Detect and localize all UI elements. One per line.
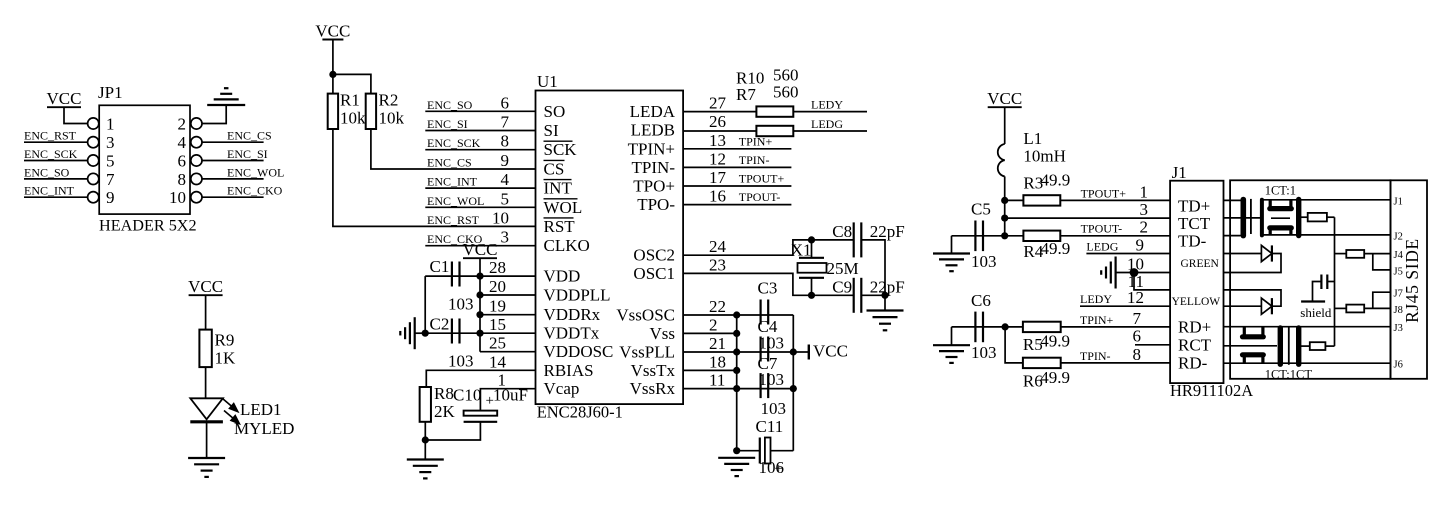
wire VDDPLL pin 20 row	[480, 294, 536, 296]
svg-text:VDDPLL: VDDPLL	[544, 286, 611, 305]
svg-text:ENC_SO: ENC_SO	[427, 98, 473, 112]
svg-text:CLKO: CLKO	[544, 236, 590, 255]
svg-text:5: 5	[501, 189, 510, 208]
svg-text:J1: J1	[1394, 196, 1403, 207]
svg-text:ENC_CS: ENC_CS	[227, 129, 272, 143]
svg-text:TPIN-: TPIN-	[632, 158, 676, 177]
svg-text:J3: J3	[1394, 323, 1403, 334]
wire net ENC_SCK to U1 pin 8	[425, 149, 535, 151]
svg-text:C5: C5	[971, 200, 991, 219]
resistor J4/J5 termination	[1335, 253, 1347, 255]
ground (Vss rail)	[718, 457, 755, 459]
svg-text:9: 9	[1136, 235, 1145, 254]
svg-text:10k: 10k	[379, 109, 405, 128]
svg-text:JP1: JP1	[98, 83, 123, 102]
svg-text:R9: R9	[215, 331, 235, 350]
svg-text:RST: RST	[544, 217, 576, 236]
center rail vertical	[1334, 217, 1336, 346]
connector J1 HR911102A body	[1170, 181, 1223, 383]
svg-text:ENC28J60-1: ENC28J60-1	[537, 403, 623, 422]
power tap VCC (Vss caps)	[793, 351, 809, 353]
JP1 pin 5 circle	[88, 155, 99, 166]
svg-text:R1: R1	[340, 91, 360, 110]
svg-text:20: 20	[489, 277, 506, 296]
svg-text:ENC_SI: ENC_SI	[227, 147, 268, 161]
svg-text:MYLED: MYLED	[234, 419, 294, 438]
wire net ENC_CKO to U1 pin 3	[425, 245, 535, 247]
capacitor C1 103	[451, 262, 453, 287]
svg-text:SI: SI	[544, 121, 559, 140]
JP1 pin 10 circle	[191, 192, 202, 203]
wire R8 to ground junction	[424, 422, 426, 460]
svg-text:1: 1	[1140, 182, 1149, 201]
wire RD- to transformer T2	[1224, 362, 1391, 364]
svg-text:J1: J1	[1172, 163, 1187, 182]
diode GREEN LED	[1224, 253, 1262, 255]
svg-text:6: 6	[1133, 327, 1142, 346]
wire VCC rail down VDD pins	[479, 258, 481, 352]
wire U1 Vss pin 2	[683, 332, 737, 334]
svg-text:22: 22	[709, 297, 726, 316]
svg-text:1CT:1CT: 1CT:1CT	[1265, 368, 1313, 382]
svg-text:RBIAS: RBIAS	[544, 361, 594, 380]
connector RJ45 SIDE body	[1391, 180, 1428, 378]
node junction C9/gnd	[881, 292, 888, 299]
svg-text:TPOUT-: TPOUT-	[1081, 222, 1123, 236]
svg-text:VssPLL: VssPLL	[619, 343, 675, 362]
transformer T1 secondary winding bar	[1260, 200, 1264, 236]
resistor R9 1K	[199, 330, 211, 368]
resistor R7 560	[756, 126, 793, 136]
ground (C1/C2) rotated	[414, 317, 416, 349]
ground (C8/C9)	[867, 309, 904, 311]
svg-text:8: 8	[178, 170, 187, 189]
wire R1 to ENC_RST row	[333, 129, 536, 226]
svg-text:5: 5	[106, 152, 115, 171]
connector JP1 HEADER 5X2	[99, 105, 190, 214]
svg-text:Vss: Vss	[649, 324, 675, 343]
node junction L1/R4/C5	[1001, 232, 1008, 239]
wire RCT to transformer T2	[1224, 345, 1278, 347]
svg-text:4: 4	[178, 133, 187, 152]
svg-text:TPOUT+: TPOUT+	[1081, 186, 1127, 200]
svg-text:560: 560	[773, 83, 799, 102]
svg-text:ENC_RST: ENC_RST	[427, 213, 480, 227]
wire R4 to J1 pin 2 TPOUT-	[1060, 235, 1170, 237]
diode YELLOW LED	[1224, 305, 1262, 307]
svg-text:TPIN+: TPIN+	[628, 139, 675, 158]
wire TD- to transformer T1	[1224, 235, 1241, 237]
node junction L1/R3	[1001, 197, 1008, 204]
svg-text:3: 3	[1140, 200, 1149, 219]
wire X1 top lead	[811, 240, 813, 258]
JP1 pin 6 circle	[191, 155, 202, 166]
svg-text:RJ45 SIDE: RJ45 SIDE	[1402, 238, 1422, 323]
svg-text:ENC_WOL: ENC_WOL	[427, 194, 484, 208]
node junction gnd rail bottom	[733, 447, 740, 454]
wire C7 row	[737, 388, 794, 390]
svg-text:X1: X1	[791, 241, 812, 260]
svg-text:TPIN+: TPIN+	[1080, 313, 1114, 327]
svg-text:11: 11	[709, 371, 725, 390]
wire J7 branch	[1373, 292, 1391, 308]
wire U1 OSC2 to crystal	[683, 240, 854, 255]
wire U1 net TPIN+	[683, 148, 791, 150]
wire VDDOSC pin 25 row	[480, 351, 536, 353]
svg-text:103: 103	[759, 334, 785, 353]
wire U1 net TPIN-	[683, 166, 791, 168]
transformer T1 core	[1250, 199, 1252, 234]
svg-text:103: 103	[448, 295, 474, 314]
wire VDDRx pin 19 row	[480, 314, 536, 316]
node junction gnd rail	[733, 348, 740, 355]
svg-text:C8: C8	[832, 222, 852, 241]
svg-text:INT: INT	[544, 179, 573, 198]
wire TCT to transformer T1	[1224, 217, 1263, 219]
svg-text:4: 4	[501, 170, 510, 189]
node junction gnd rail	[733, 311, 740, 318]
node junction VCC/R1/R2	[329, 71, 336, 78]
wire junction to R2	[333, 74, 371, 93]
wire net LEDG to J1 pin 9	[1086, 253, 1170, 255]
capacitor C7 103	[759, 373, 761, 398]
svg-text:TPIN+: TPIN+	[739, 134, 773, 148]
wire TD+ to transformer T1	[1224, 199, 1241, 201]
svg-text:R8: R8	[434, 384, 454, 403]
magnetics box	[1230, 180, 1390, 378]
svg-text:9: 9	[106, 188, 115, 207]
wire VCC to R9	[205, 295, 207, 329]
capacitor C11 106 electrolytic	[737, 450, 760, 452]
svg-text:CS: CS	[544, 159, 565, 178]
svg-text:YELLOW: YELLOW	[1172, 296, 1221, 308]
svg-text:10k: 10k	[340, 109, 366, 128]
svg-text:10uF: 10uF	[493, 386, 528, 405]
svg-text:10: 10	[169, 188, 186, 207]
svg-text:HEADER 5X2: HEADER 5X2	[99, 217, 197, 235]
resistor R6 49.9	[1023, 358, 1061, 368]
svg-text:LEDG: LEDG	[1086, 239, 1118, 253]
capacitor C4 103	[759, 337, 761, 362]
svg-text:49.9: 49.9	[1041, 239, 1071, 258]
svg-text:49.9: 49.9	[1040, 332, 1070, 351]
svg-text:15: 15	[489, 315, 506, 334]
wire VDD pin 28 row	[425, 275, 535, 277]
svg-text:49.9: 49.9	[1041, 171, 1071, 190]
node junction C6/R5	[1002, 323, 1009, 330]
transformer T1 primary winding bar	[1241, 200, 1247, 236]
svg-text:103: 103	[971, 343, 997, 362]
svg-text:VCC: VCC	[463, 240, 498, 259]
svg-text:J6: J6	[1394, 360, 1403, 371]
capacitor C3 103	[759, 300, 761, 325]
JP1 pin 1 circle	[88, 118, 99, 129]
svg-text:U1: U1	[537, 72, 558, 91]
resistor R1 10k	[328, 94, 338, 129]
wire U1 net TPOUT-	[683, 204, 791, 206]
svg-text:R7: R7	[736, 85, 756, 104]
JP1 pin 9 circle	[88, 192, 99, 203]
svg-text:TD-: TD-	[1178, 232, 1207, 251]
svg-text:C10: C10	[453, 386, 481, 405]
wire C3 row	[737, 314, 794, 316]
wire net ENC_RST to JP1	[24, 141, 88, 143]
svg-text:ENC_RST: ENC_RST	[24, 129, 77, 143]
svg-text:OSC2: OSC2	[633, 246, 675, 265]
wire U1 VssOSC pin 22	[683, 314, 737, 316]
svg-text:ENC_SCK: ENC_SCK	[427, 136, 481, 150]
power symbol VCC (L1)	[988, 106, 1022, 108]
transformer T2 right winding bar	[1296, 328, 1301, 364]
svg-text:WOL: WOL	[544, 198, 583, 217]
svg-text:103: 103	[759, 370, 785, 389]
svg-text:9: 9	[501, 151, 510, 170]
wire R2 to ENC_CS row	[371, 129, 536, 169]
capacitor C2 103	[451, 319, 453, 344]
svg-text:OSC1: OSC1	[633, 264, 675, 283]
resistor J7/J8 termination	[1335, 307, 1347, 309]
svg-text:3: 3	[106, 133, 115, 152]
svg-text:shield: shield	[1300, 305, 1332, 320]
choke T1 bottom winding bar	[1270, 225, 1292, 230]
svg-text:12: 12	[709, 149, 726, 168]
svg-text:C3: C3	[758, 279, 778, 298]
capacitor C8 22pF	[853, 222, 855, 257]
svg-text:13: 13	[709, 131, 726, 150]
wire LED1 to ground	[206, 422, 208, 458]
choke T2 top winding bar	[1243, 334, 1264, 339]
svg-text:TPOUT+: TPOUT+	[739, 172, 785, 186]
svg-text:TPO-: TPO-	[637, 195, 675, 214]
svg-text:21: 21	[709, 334, 726, 353]
svg-text:LEDY: LEDY	[811, 98, 843, 112]
ground (C5)	[933, 252, 970, 254]
svg-text:28: 28	[489, 258, 506, 277]
node junction X1 bottom	[808, 292, 815, 299]
svg-text:VCC: VCC	[47, 89, 82, 108]
svg-text:VssRx: VssRx	[630, 379, 676, 398]
svg-text:GREEN: GREEN	[1181, 258, 1220, 270]
wire R7 to net LEDG	[793, 130, 867, 132]
wire RBIAS pin 14 row	[426, 370, 535, 387]
resistor T2 center tap	[1301, 345, 1310, 347]
wire C8 to gnd rail	[861, 240, 885, 311]
node junction gnd rail	[733, 330, 740, 337]
JP1 pin 2 circle	[191, 118, 202, 129]
wire net ENC_SO to U1 pin 6	[425, 110, 535, 112]
wire C9 to gnd rail	[861, 294, 885, 296]
svg-text:VCC: VCC	[987, 89, 1022, 108]
svg-text:VDDRx: VDDRx	[544, 305, 601, 324]
wire net ENC_SI to U1 pin 7	[425, 130, 535, 132]
wire C4 row	[737, 351, 794, 353]
svg-text:2K: 2K	[434, 402, 456, 421]
power symbol VCC (R9)	[189, 294, 223, 296]
svg-text:TD+: TD+	[1178, 196, 1210, 215]
svg-text:Vcap: Vcap	[544, 379, 580, 398]
svg-text:RCT: RCT	[1178, 335, 1212, 354]
svg-text:7: 7	[106, 170, 115, 189]
svg-text:C2: C2	[430, 315, 450, 334]
wire Vcap pin 1 row	[480, 389, 535, 411]
svg-text:VDD: VDD	[544, 267, 581, 286]
resistor R2 10k	[366, 94, 376, 129]
capacitor C10 10uF electrolytic	[464, 411, 498, 416]
svg-text:10mH: 10mH	[1023, 147, 1066, 166]
svg-text:2: 2	[1140, 218, 1149, 237]
wire R3 to J1 pin 1 TPOUT+	[1060, 199, 1170, 201]
node junction C2/ground	[422, 330, 429, 337]
svg-text:HR911102A: HR911102A	[1170, 381, 1253, 400]
node junction R8/C10/gnd	[422, 436, 429, 443]
crystal X1 25M	[799, 257, 824, 259]
svg-text:22pF: 22pF	[870, 222, 905, 241]
svg-text:VCC: VCC	[188, 277, 223, 296]
node junction gnd rail	[733, 385, 740, 392]
VCC rail right vertical	[792, 315, 794, 451]
svg-text:VDDOSC: VDDOSC	[544, 342, 614, 361]
svg-text:LED1: LED1	[240, 400, 282, 419]
svg-text:26: 26	[709, 112, 726, 131]
wire JP1 to net ENC_SI	[202, 160, 264, 162]
capacitor C9 22pF	[853, 278, 855, 313]
svg-text:103: 103	[448, 352, 474, 371]
resistor R8 2K	[420, 387, 431, 422]
svg-text:ENC_INT: ENC_INT	[427, 175, 478, 189]
ground (JP1 pin 2)	[207, 104, 245, 106]
node junction pin10/11	[1130, 268, 1139, 277]
wire U1 VssTx pin 18	[683, 369, 737, 371]
wire U1 LEDB to R7	[683, 130, 756, 132]
svg-text:LEDA: LEDA	[630, 102, 676, 121]
wire net ENC_INT to U1 pin 4	[425, 187, 535, 189]
choke T2 bottom winding bar	[1243, 352, 1264, 357]
svg-text:ENC_INT: ENC_INT	[24, 184, 75, 198]
node junction pin15	[476, 330, 483, 337]
svg-text:LEDG: LEDG	[811, 117, 843, 131]
wire VCC to JP1 pin 1	[64, 107, 88, 123]
wire JP1 to net ENC_CKO	[202, 196, 264, 198]
wire VDDTx pin 15 row	[425, 332, 535, 334]
wire C5 to ground	[951, 236, 953, 254]
wire transformer to RJ45 J1 row	[1263, 199, 1391, 201]
svg-text:7: 7	[1133, 309, 1142, 328]
wire U1 LEDA to R10	[683, 111, 756, 113]
wire R9 to LED1	[205, 367, 207, 398]
LED LED1 MYLED	[190, 398, 223, 419]
capacitor shield	[1320, 275, 1322, 290]
ground (LED1)	[188, 457, 225, 459]
node junction pin20	[476, 291, 483, 298]
ground shield	[1313, 282, 1322, 301]
svg-text:10: 10	[1127, 254, 1144, 273]
svg-text:RD-: RD-	[1178, 353, 1208, 372]
LED1 emission arrows	[223, 399, 240, 424]
transformer T1 right winding bar	[1296, 200, 1301, 236]
node junction gnd rail	[733, 367, 740, 374]
wire net ENC_INT to JP1	[24, 196, 88, 198]
svg-text:R2: R2	[379, 91, 399, 110]
svg-text:17: 17	[709, 168, 727, 187]
wire rail C1 to C2	[424, 276, 426, 333]
svg-text:1CT:1: 1CT:1	[1265, 184, 1296, 198]
inductor L1 10mH	[1004, 107, 1006, 144]
svg-text:19: 19	[489, 297, 506, 316]
wire net ENC_SCK to JP1	[24, 160, 88, 162]
svg-text:TCT: TCT	[1178, 214, 1211, 233]
wire U1 net TPOUT+	[683, 185, 791, 187]
svg-text:6: 6	[501, 93, 510, 112]
svg-text:ENC_SI: ENC_SI	[427, 117, 468, 131]
resistor R3 49.9	[1005, 199, 1024, 201]
wire R5 to J1 pin 7 TPIN+	[1061, 326, 1170, 328]
node junction pin19	[476, 311, 483, 318]
svg-text:ENC_SO: ENC_SO	[24, 165, 70, 179]
svg-text:ENC_WOL: ENC_WOL	[227, 165, 284, 179]
wire RD+ to transformer T2	[1224, 326, 1391, 328]
ground (J1 pins 10/11) rotated	[1114, 257, 1116, 289]
JP1 pin 4 circle	[191, 137, 202, 148]
svg-text:103: 103	[971, 252, 997, 271]
svg-text:24: 24	[709, 237, 727, 256]
svg-text:TPIN-: TPIN-	[739, 153, 770, 167]
svg-text:TPOUT-: TPOUT-	[739, 190, 781, 204]
svg-text:7: 7	[501, 113, 510, 132]
JP1 pin 7 circle	[88, 173, 99, 184]
wire X1 bottom lead	[811, 278, 813, 296]
gnd rail left vertical	[736, 315, 738, 451]
transformer T2 core	[1288, 327, 1290, 365]
choke T1 mid line	[1271, 217, 1290, 219]
capacitor C6 103	[952, 326, 1006, 328]
choke T1 top winding bar	[1270, 206, 1292, 211]
svg-text:VssOSC: VssOSC	[616, 306, 675, 325]
svg-text:1K: 1K	[215, 349, 237, 368]
svg-text:3: 3	[501, 228, 510, 247]
svg-text:8: 8	[1133, 345, 1142, 364]
node junction pin28	[476, 273, 483, 280]
transformer T2 left winding bar	[1278, 328, 1283, 364]
svg-text:18: 18	[709, 352, 726, 371]
ground (R8/C10)	[407, 458, 444, 460]
wire net ENC_SO to JP1	[24, 178, 88, 180]
svg-text:27: 27	[709, 94, 727, 113]
svg-text:C11: C11	[756, 417, 784, 436]
wire C6 junction down to R6	[1005, 327, 1023, 363]
svg-text:LEDY: LEDY	[1080, 292, 1112, 306]
svg-text:VCC: VCC	[315, 21, 350, 40]
wire R10 to net LEDY	[793, 111, 867, 113]
svg-text:12: 12	[1127, 288, 1144, 307]
power symbol VCC (R1/R2)	[322, 39, 343, 41]
svg-text:8: 8	[501, 132, 510, 151]
wire R6 to J1 pin 8 TPIN-	[1061, 362, 1170, 364]
svg-text:10: 10	[492, 208, 509, 227]
svg-text:49.9: 49.9	[1040, 368, 1070, 387]
svg-text:6: 6	[178, 152, 187, 171]
wire J1 pin 6 RCT stub	[1135, 344, 1170, 346]
wire transformer to RJ45 J2 row	[1263, 234, 1391, 236]
power symbol VCC (JP1)	[47, 106, 81, 108]
svg-text:VssTx: VssTx	[631, 361, 676, 380]
svg-text:103: 103	[761, 399, 787, 418]
wire net LEDY to J1 pin 12	[1080, 305, 1170, 307]
svg-text:106: 106	[759, 458, 785, 477]
wire C6 to ground	[951, 327, 953, 345]
wire JP1 to net ENC_CS	[202, 141, 264, 143]
wire U1 VssPLL pin 21	[683, 351, 737, 353]
svg-text:C6: C6	[971, 291, 991, 310]
